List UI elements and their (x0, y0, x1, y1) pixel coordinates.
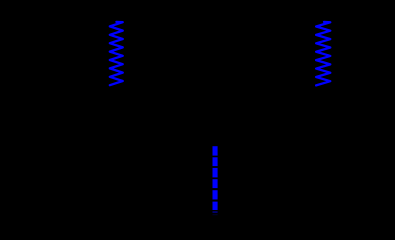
resistor R1 (110, 22, 123, 85)
component L1 dash 4 (213, 179, 218, 188)
component L1 (dashed element) dash 1 (213, 146, 218, 155)
component L1 faint dash remnant (213, 211, 218, 213)
component L1 dash 3 (213, 168, 218, 178)
component L1 dash 6 (213, 202, 218, 210)
component L1 faint dash remnant 2 (213, 213, 218, 216)
component L1 dash 2 (213, 157, 218, 166)
resistor R2 (316, 22, 330, 86)
component L1 dash 5 (213, 190, 218, 199)
